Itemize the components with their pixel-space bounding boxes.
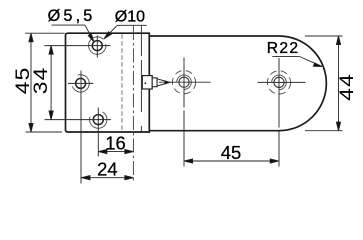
pin body dot — [144, 82, 146, 84]
hole bottom-left Ø10 countersink arc — [90, 112, 107, 128]
svg-text:Ø10: Ø10 — [115, 9, 145, 26]
svg-text:44: 44 — [337, 73, 358, 101]
extension lines right for 44 dim — [305, 36, 343, 131]
dimension 16 text — [105, 132, 125, 153]
bend centerline (dash-dot) x=133.4 — [132, 26, 134, 184]
pin neck rectangle — [152, 78, 157, 87]
extension line y=33.5 top-left (45 dim top reference) — [25, 32, 65, 34]
label Ø5,5 leader with arrow — [52, 25, 94, 42]
dimension 16 horizontal line with arrows — [98, 150, 133, 154]
dimension 44 right text — [337, 73, 358, 101]
hole top-left vertical crosshair — [96, 36, 98, 58]
hole bottom-left Ø5.5 circle — [93, 115, 103, 125]
pin point filled tip — [165, 80, 170, 84]
label Ø10 text — [115, 9, 145, 26]
arm hole 2 inner circle — [274, 77, 284, 87]
label R22 leader with arrow — [272, 57, 322, 67]
arm hole 1 inner circle — [179, 77, 189, 87]
arm hole 2 crosshair — [258, 58, 306, 128]
arm hole 2 dashed circle — [267, 71, 290, 94]
hole bottom-left vertical crosshair + extension to 16 dim — [97, 108, 99, 157]
label R22 text — [267, 40, 300, 57]
dimension 45 left text — [13, 67, 34, 95]
extension line y=119.6 through bottom hole (34 dim bottom reference) — [45, 119, 112, 121]
dimension 34 text — [31, 67, 52, 95]
extension lines arm holes down to 45 dim — [184, 124, 279, 167]
arm hole 1 crosshair — [159, 58, 211, 125]
hole middle-left Ø5.5 circle — [76, 78, 86, 88]
svg-text:45: 45 — [221, 142, 241, 163]
dimension 24 horizontal line with arrows — [81, 176, 133, 180]
mounting plate outline — [66, 33, 150, 132]
svg-text:16: 16 — [105, 132, 125, 153]
long-dash line x=141.4 — [140, 26, 142, 132]
dimension 45 left vertical line with arrows — [29, 33, 33, 132]
svg-text:R22: R22 — [267, 40, 300, 57]
dimension 45 bottom horizontal line with arrows — [184, 159, 279, 163]
arm outline with R22 round end — [149, 36, 326, 131]
hole middle-left Ø10 countersink arc — [72, 75, 89, 92]
svg-text:Ø5,5: Ø5,5 — [48, 7, 96, 25]
arm hole 2 middle arc — [272, 75, 287, 90]
svg-text:24: 24 — [97, 158, 117, 179]
arm hole 1 middle arc — [177, 75, 192, 90]
label Ø5,5 text — [48, 7, 96, 25]
arm hole 1 dashed circle — [172, 71, 195, 94]
hole top-left Ø5.5 circle — [92, 41, 102, 51]
dimension 44 right vertical line with arrows — [336, 36, 340, 131]
extension line y=131.8 bottom-left (45 dim bottom reference) — [26, 131, 63, 133]
dimension 24 text — [97, 158, 117, 179]
svg-text:34: 34 — [31, 67, 52, 95]
extension line y=45.6 through top hole (34 dim top reference) — [44, 45, 110, 47]
dimension 34 vertical line with arrows — [49, 46, 53, 120]
pin body rectangle — [142, 76, 152, 89]
hidden line (dashed) x=122 — [121, 34, 123, 130]
label Ø10 leader with arrow — [104, 25, 147, 39]
pin point outline — [157, 79, 170, 86]
hole top-left Ø10 countersink arc — [89, 37, 106, 54]
hole middle-left horizontal crosshair — [68, 82, 94, 84]
hole middle-left vertical crosshair + extension to 24 dim — [80, 71, 82, 184]
dimension 45 bottom text — [221, 142, 241, 163]
